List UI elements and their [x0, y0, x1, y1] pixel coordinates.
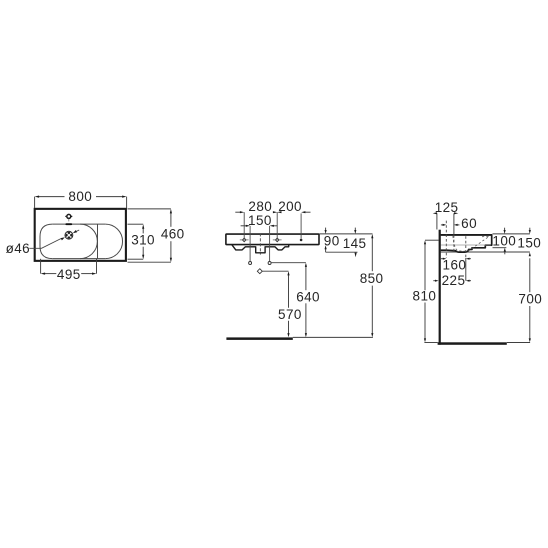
plan tap hole symbol — [67, 214, 71, 218]
svg-text:100: 100 — [492, 234, 516, 249]
dim 310 arrows — [142, 224, 144, 229]
dim 280 arrow left — [240, 211, 244, 213]
svg-text:310: 310 — [131, 233, 155, 248]
dim 100 bottom extension — [493, 247, 507, 249]
dim 90-145 bottom rail — [326, 251, 358, 253]
dim 310 line — [142, 228, 144, 234]
svg-text:495: 495 — [57, 267, 81, 282]
dim 810 arrows — [424, 240, 426, 244]
dim 145 top arrow — [354, 230, 356, 234]
dim 850 line — [371, 238, 373, 272]
dim 150 side bottom / 700 top arrow — [529, 252, 531, 256]
side slab bottom gray line — [441, 244, 491, 246]
dim 90 arrows — [325, 230, 327, 234]
front slab — [226, 234, 319, 245]
dim 800 arrows — [35, 196, 40, 198]
svg-text:280: 280 — [248, 199, 272, 214]
plan overflow slot — [65, 223, 72, 225]
dim 100 arrow tails — [504, 228, 506, 231]
dia46 leader arrow NE — [73, 230, 77, 233]
svg-text:200: 200 — [278, 199, 302, 214]
svg-text:150: 150 — [248, 213, 272, 228]
dim 60 arrows — [443, 224, 447, 226]
plan inner rim bottom line — [52, 258, 105, 260]
dim 640 line — [305, 266, 307, 290]
front fixing circles — [249, 262, 252, 265]
svg-text:145: 145 — [343, 236, 367, 251]
dim 145 arrow tail — [354, 228, 356, 231]
dim 125 hooks — [436, 213, 438, 229]
dia46 leader arrow SW — [61, 237, 65, 240]
dim 310 stubs — [128, 223, 144, 225]
dim 570 line — [288, 275, 290, 308]
dim 850 arrows — [371, 234, 373, 238]
front lower diamond — [257, 269, 262, 274]
plan inner rim top line — [52, 223, 105, 225]
front middle tap hole diamond — [275, 238, 279, 242]
dim 280 stub left — [235, 211, 240, 213]
side top edge thick — [441, 234, 492, 236]
plan drain outer circle — [65, 231, 73, 239]
dim 460 line — [170, 213, 172, 227]
dia46 leader line — [29, 239, 61, 249]
svg-text:60: 60 — [461, 216, 477, 231]
dim 225 stub left tail — [433, 280, 435, 282]
lower diamond connector — [263, 270, 289, 272]
side drain axis dashed C — [465, 236, 467, 258]
dim 640 arrows — [305, 263, 307, 267]
plan deck right cap arc — [105, 224, 122, 259]
dim 495 arrows — [41, 273, 46, 275]
svg-text:850: 850 — [360, 271, 384, 286]
plan drain wedges — [66, 232, 73, 239]
dim 225 arrows — [435, 280, 439, 282]
dim 800 hooks — [34, 197, 36, 208]
svg-text:460: 460 — [161, 227, 185, 242]
front left tap hole diamond — [242, 238, 246, 242]
svg-text:570: 570 — [278, 307, 302, 322]
dim 700 line — [529, 258, 531, 292]
dim 145 bottom arrow — [355, 253, 357, 258]
dim 90 arrow tails — [325, 228, 327, 231]
dim 100 arrows — [504, 230, 506, 234]
side wall thick line — [439, 230, 441, 345]
front centerline (dashed) — [259, 233, 261, 254]
front right hole dot — [300, 239, 303, 242]
dim 810 hook — [425, 239, 439, 241]
dim 570 arrows — [287, 271, 289, 275]
side floor extension left — [424, 342, 437, 344]
plan bowl-deck divider line — [97, 224, 99, 259]
dim 160 stub right tail — [469, 258, 471, 260]
dim 495 hooks — [40, 259, 42, 274]
svg-text:225: 225 — [442, 273, 466, 288]
side floor thick line — [438, 342, 507, 345]
dim 225 stub right tail — [469, 280, 471, 282]
plan bowl left rounded end — [40, 224, 52, 259]
dim 200 arrow right — [301, 211, 305, 213]
svg-text:ø46: ø46 — [6, 241, 30, 256]
svg-text:640: 640 — [296, 289, 320, 304]
dim 280-200 shared arrows — [273, 211, 277, 213]
plan bowl right cap arc — [80, 224, 97, 259]
fixing circle connector — [271, 262, 306, 264]
dim 800 line — [39, 196, 65, 198]
front floor thick line — [226, 337, 292, 340]
svg-text:800: 800 — [68, 189, 92, 204]
plan tap centerline stem — [68, 219, 70, 222]
dim 150 stub left — [241, 225, 247, 227]
svg-text:150: 150 — [517, 235, 541, 250]
dim 810 line — [424, 244, 426, 290]
fixing hole extension right — [269, 226, 271, 262]
dim 700 bottom arrow — [529, 338, 531, 342]
tap hole extension left — [243, 212, 245, 238]
dim 100-150 top extension — [493, 233, 530, 235]
dim 60 stub left tail — [441, 224, 443, 226]
front under-profile — [232, 245, 289, 253]
dim 200 stub right — [305, 211, 310, 213]
dim 150 arrow tail — [529, 228, 531, 231]
side basin outline — [441, 235, 492, 252]
dim 125 arrow right — [454, 212, 458, 214]
dim 460 hooks — [128, 208, 171, 210]
dim 125 arrow left — [433, 212, 437, 214]
svg-text:125: 125 — [435, 200, 459, 215]
dim 160 arrows — [443, 258, 447, 260]
dim 460 arrows — [170, 209, 172, 214]
plan outer rectangle (basin rim, thick) — [35, 209, 126, 261]
dim 90-145 top extension — [320, 233, 373, 235]
dim 160 stub left — [441, 258, 443, 260]
front floor extension — [293, 336, 373, 338]
svg-text:700: 700 — [518, 292, 542, 307]
svg-text:810: 810 — [413, 289, 437, 304]
dim 150 arrows — [246, 225, 250, 227]
fixing hole extension left — [249, 226, 251, 262]
side thin bottom line — [441, 251, 530, 253]
side bowl section dashed — [453, 236, 489, 251]
tap hole extension middle — [276, 212, 278, 238]
dim 150 side top arrow — [529, 230, 531, 234]
svg-text:160: 160 — [443, 257, 467, 272]
hole extension right — [300, 213, 302, 238]
dim 60 stub right tail — [457, 224, 459, 226]
dim 150 stub right tail — [274, 225, 278, 227]
side tap axis S1 — [453, 213, 455, 235]
svg-text:90: 90 — [324, 234, 340, 249]
side fixing axis dashed D1 — [445, 221, 447, 258]
side floor extension right — [507, 342, 530, 344]
dim 495 line — [44, 273, 56, 275]
